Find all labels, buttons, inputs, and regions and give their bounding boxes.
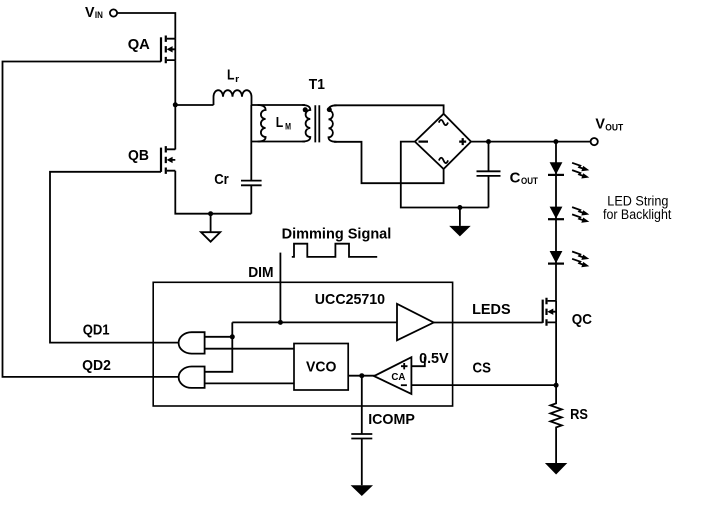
svg-text:LED String: LED String [607, 193, 668, 208]
svg-text:C: C [510, 169, 521, 186]
svg-text:QA: QA [128, 36, 150, 53]
svg-text:QD2: QD2 [82, 357, 111, 374]
svg-text:IN: IN [95, 10, 103, 20]
svg-text:QB: QB [128, 147, 149, 164]
svg-text:V: V [595, 115, 605, 132]
svg-text:RS: RS [570, 406, 588, 423]
svg-text:ICOMP: ICOMP [368, 411, 415, 428]
svg-text:L: L [227, 67, 235, 84]
svg-text:QC: QC [572, 311, 592, 328]
svg-text:M: M [285, 122, 291, 132]
svg-text:VCO: VCO [306, 359, 337, 376]
svg-text:V: V [85, 4, 95, 21]
svg-text:LEDS: LEDS [472, 301, 511, 318]
svg-text:Cr: Cr [214, 171, 229, 188]
svg-text:T1: T1 [309, 76, 325, 93]
svg-text:DIM: DIM [248, 264, 273, 281]
svg-text:Dimming Signal: Dimming Signal [282, 226, 392, 243]
svg-text:r: r [235, 74, 239, 84]
svg-text:CA: CA [391, 371, 405, 383]
svg-text:OUT: OUT [521, 176, 538, 186]
svg-text:for Backlight: for Backlight [603, 207, 672, 222]
svg-text:UCC25710: UCC25710 [315, 291, 385, 308]
svg-text:CS: CS [473, 360, 491, 377]
svg-text:0.5V: 0.5V [419, 350, 449, 367]
svg-text:L: L [276, 114, 284, 131]
svg-text:QD1: QD1 [83, 321, 110, 338]
svg-text:OUT: OUT [605, 123, 623, 133]
